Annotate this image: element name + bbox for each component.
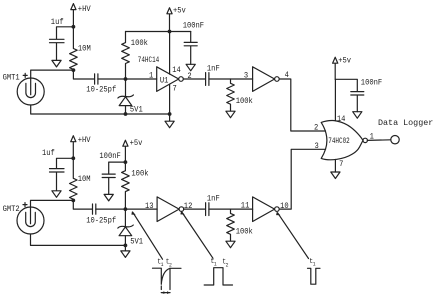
wire: node down to coupling cap bbox=[73, 200, 92, 209]
connector: Data Logger output bbox=[378, 118, 433, 144]
power +5v (channel 2) bbox=[123, 140, 143, 162]
svg-text:12: 12 bbox=[184, 203, 193, 212]
svg-text:+5v: +5v bbox=[338, 57, 351, 66]
svg-text:7: 7 bbox=[173, 85, 178, 94]
svg-text:1nF: 1nF bbox=[207, 65, 220, 74]
wire: node to C6 bbox=[57, 158, 74, 168]
capacitor C9 1nF bbox=[206, 195, 220, 215]
capacitor C6 1uf bbox=[42, 150, 64, 190]
svg-text:1: 1 bbox=[214, 261, 217, 267]
node: zener / ground rail junction bbox=[124, 112, 128, 116]
ground (C6) bbox=[52, 191, 61, 198]
svg-text:+HV: +HV bbox=[78, 137, 91, 146]
svg-text:3: 3 bbox=[315, 143, 320, 152]
ground (R6) bbox=[226, 241, 235, 248]
svg-text:GMT2: GMT2 bbox=[3, 205, 20, 214]
svg-text:1uf: 1uf bbox=[42, 150, 55, 159]
svg-text:1uf: 1uf bbox=[51, 18, 64, 27]
resistor R5 100k pull-up bbox=[122, 162, 149, 209]
capacitor C2 10-25pf bbox=[86, 74, 116, 95]
svg-text:100k: 100k bbox=[236, 98, 253, 107]
wire: pin 14 supply to U1 bbox=[169, 32, 171, 75]
wire: U1 pin 7 to ground rail bbox=[169, 84, 171, 114]
wire: C2 to input node bbox=[98, 78, 126, 80]
waveform: narrow output pulse (t1) bbox=[308, 258, 321, 285]
GM tube GMT2 bbox=[3, 203, 44, 234]
node: +5v / 100nF junction (ch2) bbox=[124, 160, 128, 164]
svg-text:Data Logger: Data Logger bbox=[378, 118, 433, 128]
wire: C4 to U2 pin 3 bbox=[209, 78, 253, 80]
callout arrow: U4 output waveform bbox=[276, 212, 308, 259]
zener D2 5V1 bbox=[118, 209, 144, 247]
wire: U1 output to C4 bbox=[183, 78, 205, 80]
wire: node to C1 bbox=[57, 27, 74, 39]
svg-text:100k: 100k bbox=[236, 228, 253, 237]
wire: NOR output to connector bbox=[367, 139, 390, 142]
svg-text:11: 11 bbox=[241, 202, 250, 211]
node: R4 / GMT2 anode junction bbox=[71, 199, 75, 203]
svg-text:+5v: +5v bbox=[130, 140, 143, 149]
wire: U4 output to NOR input 3 bbox=[279, 149, 325, 209]
ground (R3) bbox=[226, 111, 235, 118]
svg-text:2: 2 bbox=[314, 124, 319, 133]
svg-text:10M: 10M bbox=[78, 176, 91, 185]
waveform: GM pulse (t1 exponential) bbox=[153, 258, 182, 294]
ground (U1 pin 7) bbox=[165, 114, 174, 128]
ground (C10) bbox=[353, 112, 362, 119]
wire: input node to U1 pin 1 bbox=[126, 78, 157, 80]
svg-text:2: 2 bbox=[187, 73, 192, 82]
svg-text:+HV: +HV bbox=[78, 5, 91, 14]
capacitor C1 1uf bbox=[50, 18, 65, 60]
svg-text:74HC14: 74HC14 bbox=[138, 56, 160, 65]
wire: C9 to U4 pin 11 bbox=[209, 208, 253, 210]
node: R1 / GMT1 anode junction bbox=[72, 68, 76, 72]
wire: GMT1 anode to node bbox=[31, 70, 74, 78]
callout arrow: input node waveform bbox=[131, 211, 162, 259]
wire: +5v rail (ch1) bbox=[126, 31, 191, 33]
svg-text:1: 1 bbox=[313, 261, 316, 267]
power +5v (NOR) bbox=[333, 57, 352, 79]
wire: NOR pin 7 to ground bbox=[334, 160, 336, 173]
capacitor C10 100nF bbox=[335, 79, 382, 111]
node: +HV / C1 / R1 junction bbox=[72, 25, 76, 29]
svg-text:+5v: +5v bbox=[173, 7, 186, 16]
node: zener / ground junction (ch2) bbox=[124, 244, 128, 248]
node: U3 pin13 input node bbox=[124, 207, 128, 211]
svg-text:74HC02: 74HC02 bbox=[328, 137, 349, 146]
wire: U2 output to NOR input 2 bbox=[279, 79, 325, 131]
wire: input node to U3 pin 13 bbox=[125, 208, 157, 210]
resistor R6 100k bbox=[227, 209, 253, 241]
waveform: squared pulse (t1-t2) bbox=[204, 258, 232, 285]
power +HV (channel 2) bbox=[71, 136, 91, 159]
node: U1 pin1 input node bbox=[124, 77, 128, 81]
inverter U2 (74HC14 pins 3-4) bbox=[253, 67, 280, 92]
callout arrow: U3 output waveform bbox=[180, 211, 213, 258]
wire: ground rail (GMT1 cathode) bbox=[31, 105, 170, 114]
resistor R3 100k bbox=[227, 79, 253, 111]
capacitor C3 100nF bbox=[183, 22, 205, 64]
svg-text:2: 2 bbox=[169, 262, 172, 268]
resistor R2 100k pull-up bbox=[122, 32, 149, 80]
svg-text:5V1: 5V1 bbox=[130, 238, 143, 247]
svg-text:100k: 100k bbox=[131, 40, 148, 49]
ground (NOR pin 7) bbox=[331, 172, 340, 179]
wire: C7 to input node bbox=[96, 208, 126, 210]
wire: ground rail (GMT2 cathode) bbox=[31, 234, 126, 245]
resistor R1 10M bbox=[70, 27, 91, 70]
GM tube GMT1 bbox=[3, 73, 45, 105]
svg-text:10-25pf: 10-25pf bbox=[86, 86, 116, 95]
wire: U3 output to C9 bbox=[184, 208, 205, 210]
node: pin7 / ground rail junction bbox=[168, 112, 172, 116]
svg-text:14: 14 bbox=[172, 67, 181, 76]
svg-text:3: 3 bbox=[244, 72, 249, 81]
svg-text:10M: 10M bbox=[78, 45, 91, 54]
wire: node down to coupling cap bbox=[73, 70, 94, 79]
NOR gate U5 74HC02 bbox=[321, 120, 367, 159]
svg-text:10: 10 bbox=[280, 203, 289, 212]
svg-text:1: 1 bbox=[161, 262, 164, 268]
wire: GMT2 anode to node bbox=[31, 200, 74, 207]
inverter U4 (74HC14 pins 11-10) bbox=[253, 197, 280, 222]
svg-text:100nF: 100nF bbox=[361, 79, 383, 88]
resistor R4 10M bbox=[70, 158, 91, 200]
capacitor C4 1nF bbox=[206, 65, 220, 85]
ground (ch2 rail) bbox=[121, 245, 130, 257]
node: +5v rail junction bbox=[168, 30, 172, 34]
svg-text:U1: U1 bbox=[160, 77, 169, 86]
inverter U3 (74HC14 pins 13-12) bbox=[157, 197, 184, 222]
svg-text:13: 13 bbox=[145, 203, 154, 212]
svg-text:GMT1: GMT1 bbox=[3, 74, 20, 83]
svg-text:100k: 100k bbox=[131, 170, 148, 179]
svg-text:10-25pf: 10-25pf bbox=[86, 217, 116, 226]
zener D1 5V1 bbox=[118, 79, 143, 115]
capacitor C7 10-25pf bbox=[86, 204, 116, 226]
svg-text:2: 2 bbox=[226, 262, 229, 268]
svg-text:1: 1 bbox=[149, 72, 154, 81]
ground (C1) bbox=[52, 60, 61, 67]
node: +HV / C6 / R4 junction bbox=[71, 156, 75, 160]
power +HV (channel 1) bbox=[71, 4, 91, 27]
capacitor C8 100nF bbox=[99, 153, 125, 195]
svg-text:7: 7 bbox=[339, 161, 344, 170]
svg-text:1nF: 1nF bbox=[207, 195, 220, 204]
ground (C8) bbox=[104, 194, 113, 201]
inverter U1 (74HC14 pins 1-2) bbox=[157, 67, 184, 92]
svg-text:14: 14 bbox=[337, 116, 346, 125]
svg-text:100nF: 100nF bbox=[99, 153, 121, 162]
ground (C3) bbox=[186, 64, 195, 71]
wire: NOR pin 14 supply bbox=[334, 79, 336, 121]
svg-text:100nF: 100nF bbox=[183, 22, 205, 31]
power +5v (channel 1) bbox=[167, 7, 186, 31]
